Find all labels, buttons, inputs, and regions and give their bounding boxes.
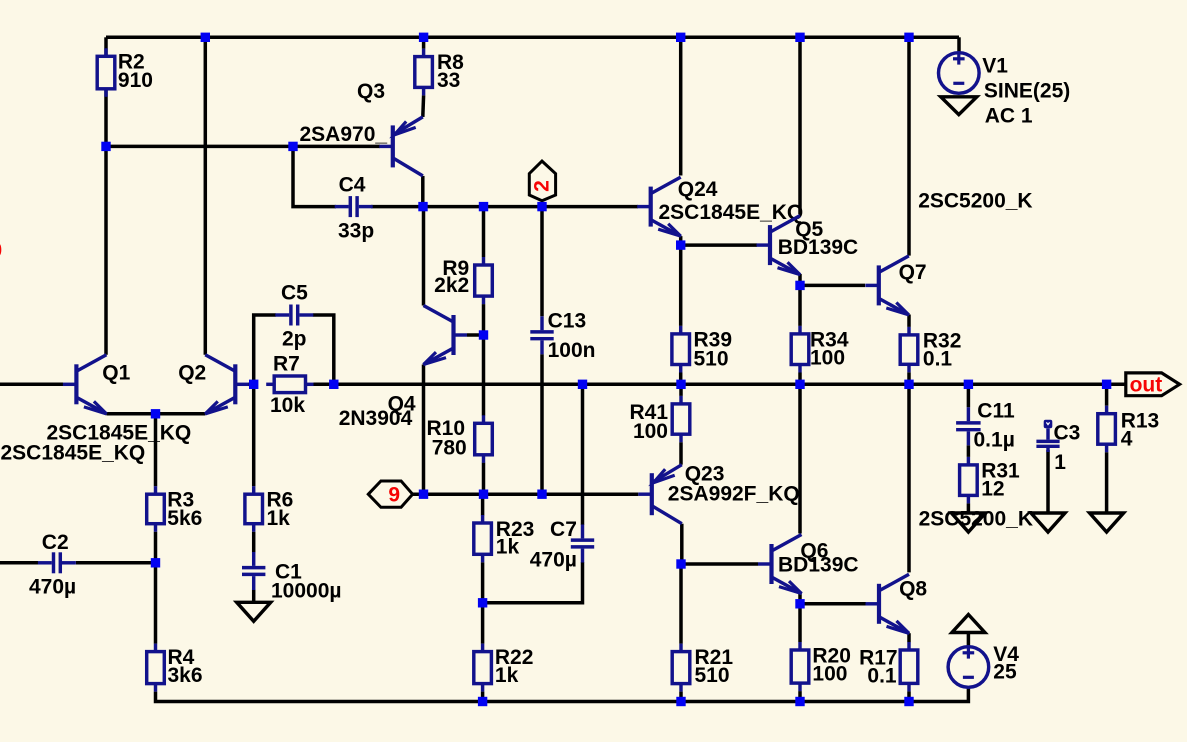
resistor R21 — [672, 644, 690, 692]
value Q4 2N3904 — [339, 407, 413, 430]
wire Q6 base — [681, 562, 758, 566]
svg-text:1k: 1k — [267, 507, 291, 530]
wire C5 right branch — [313, 315, 334, 384]
capacitor C13 — [530, 316, 553, 354]
wire R23 bottom — [481, 562, 485, 603]
wire Q4 emitter down — [422, 365, 426, 495]
transistor Q8 2SC5200_K — [866, 574, 910, 633]
svg-text:2p: 2p — [282, 328, 307, 351]
wire R6 to C1 — [252, 532, 256, 553]
value R32 — [923, 348, 953, 371]
svg-text:Q8: Q8 — [899, 577, 927, 600]
wire Q8 emitter to R17 — [907, 633, 911, 642]
wire C7 top — [581, 384, 585, 525]
value V1 SINE — [984, 79, 1070, 102]
label R22 — [495, 646, 534, 669]
value R3 — [167, 507, 202, 530]
svg-text:AC 1: AC 1 — [985, 105, 1033, 128]
wire bottom rail — [156, 687, 969, 701]
wire Q5 collector — [798, 37, 802, 214]
resistor R4 — [147, 644, 165, 692]
wire R22 bottom — [481, 692, 485, 702]
wire C4 right — [371, 205, 423, 209]
svg-text:0.1: 0.1 — [923, 348, 953, 371]
label R7 — [273, 353, 300, 376]
svg-text:910: 910 — [118, 69, 153, 92]
svg-text:510: 510 — [694, 347, 729, 370]
svg-text:2: 2 — [531, 180, 554, 192]
wire R9 bottom to Q4 base node — [482, 304, 486, 335]
value R41 — [633, 420, 668, 443]
voltage source V1 — [939, 53, 980, 94]
label R23 — [496, 518, 535, 541]
value C5 — [282, 328, 307, 351]
wire R6 top — [252, 384, 256, 486]
resistor R7 — [266, 376, 313, 393]
label R39 — [694, 328, 733, 351]
wire Q8 base — [800, 602, 866, 606]
svg-text:0.1µ: 0.1µ — [974, 429, 1015, 452]
junction at (542,494) — [537, 490, 546, 499]
svg-text:0: 0 — [0, 239, 2, 262]
value V1 AC — [985, 105, 1033, 128]
label Q3 — [357, 80, 385, 103]
value Q24 2SC1845E_KQ — [659, 201, 804, 224]
junction at (800,37) — [795, 33, 804, 42]
wire node to Q1 collector — [104, 146, 108, 354]
wire C7 bottom — [483, 562, 583, 603]
wire R13 top — [1105, 384, 1109, 405]
junction at (424,37) — [419, 33, 428, 42]
junction at (334,384) — [329, 380, 338, 389]
svg-text:2SC1845E_KQ: 2SC1845E_KQ — [659, 201, 804, 224]
junction at (968,384) — [964, 380, 973, 389]
junction at (254,384) — [249, 380, 258, 389]
wire Q4 base — [467, 333, 484, 337]
label Q23 — [685, 462, 725, 485]
value Q23 2SA992F_KQ — [668, 483, 800, 506]
wire C1 to ground — [252, 590, 256, 603]
svg-text:470µ: 470µ — [29, 576, 76, 599]
wire R21 bottom — [679, 692, 683, 702]
wire R34 bottom — [798, 373, 802, 385]
junction at (681,564) — [676, 559, 685, 568]
label R4 — [168, 646, 195, 669]
svg-text:100: 100 — [810, 347, 845, 370]
capacitor C3 (polarized) — [1036, 420, 1059, 452]
wire C2 right — [76, 561, 156, 565]
svg-text:Q3: Q3 — [357, 80, 385, 103]
capacitor C11 — [956, 407, 981, 445]
label C3 — [1054, 422, 1081, 445]
junction at (909,702) — [904, 697, 913, 706]
resistor R2 — [97, 48, 115, 97]
svg-text:C4: C4 — [339, 174, 366, 197]
wire Q5 emitter node — [798, 274, 802, 286]
value R34 — [810, 347, 845, 370]
svg-text:10k: 10k — [270, 394, 305, 417]
net flag 2 — [529, 161, 555, 201]
label R20 — [812, 644, 851, 667]
label V1 — [982, 55, 1008, 78]
junction at (484,494) — [479, 490, 488, 499]
transistor Q6 BD139C — [758, 535, 802, 594]
wire top rail — [106, 36, 959, 40]
svg-text:V1: V1 — [982, 55, 1008, 78]
label R8 — [437, 51, 464, 74]
wire R13 to ground — [1105, 452, 1109, 513]
ground C1 — [237, 602, 271, 621]
ground R13 — [1090, 513, 1124, 532]
svg-text:3k6: 3k6 — [168, 664, 203, 687]
label C5 — [281, 281, 308, 304]
label C7 — [550, 518, 577, 541]
wire V1 lead — [957, 37, 961, 53]
ground R31 — [951, 513, 985, 532]
svg-text:33p: 33p — [338, 220, 374, 243]
transistor Q7 2SC5200_K — [865, 256, 909, 315]
resistor R32 — [900, 327, 918, 372]
svg-text:33: 33 — [437, 69, 460, 92]
wire C3 to ground — [1046, 450, 1050, 513]
svg-text:C5: C5 — [281, 281, 308, 304]
svg-text:12: 12 — [981, 478, 1004, 501]
wire main rail — [314, 383, 1126, 387]
wire C2 left — [0, 561, 38, 565]
wire V4 top lead — [967, 633, 971, 648]
wire emitters to R3 — [154, 414, 158, 486]
svg-text:C2: C2 — [42, 531, 69, 554]
wire R39 bottom — [679, 373, 683, 385]
transistor Q2 2SC1845E_KQ — [205, 355, 249, 414]
wire R21 top — [679, 564, 683, 644]
junction at (681,384) — [676, 380, 685, 389]
wire R41 top — [679, 384, 683, 396]
wire Q1 Q2 emitters — [106, 412, 205, 416]
wire R41 to Q23 emitter — [679, 442, 683, 465]
value R23 — [496, 536, 520, 559]
wire C11 to R31 — [967, 445, 971, 457]
junction at (293,146) — [288, 142, 297, 151]
value C7 — [530, 549, 577, 572]
junction at (156,563) — [151, 558, 160, 567]
label Q7 — [899, 261, 927, 284]
svg-text:2SC5200_K: 2SC5200_K — [918, 189, 1032, 212]
label Q6 — [800, 540, 828, 563]
svg-text:1k: 1k — [495, 664, 519, 687]
junction at (423,207) — [418, 202, 427, 211]
label C11 — [977, 400, 1015, 423]
resistor R6 — [245, 486, 263, 532]
value R9 — [434, 274, 469, 297]
junction at (106,146) — [101, 142, 110, 151]
wire Q3 emitter to R8 — [421, 95, 425, 117]
svg-text:470µ: 470µ — [530, 549, 577, 572]
svg-text:out: out — [1130, 374, 1163, 397]
wire Q2 collector — [204, 37, 208, 355]
value C3 — [1054, 451, 1066, 474]
label R21 — [695, 646, 734, 669]
junction at (483,603) — [478, 598, 487, 607]
svg-text:C7: C7 — [550, 518, 577, 541]
value C13 — [548, 339, 596, 362]
wire R17 bottom — [907, 691, 911, 701]
svg-text:C11: C11 — [977, 400, 1015, 423]
label R13 — [1121, 410, 1160, 433]
label Q24 — [678, 178, 718, 201]
label R32 — [923, 329, 962, 352]
junction at (681,702) — [676, 697, 685, 706]
resistor R13 — [1098, 406, 1116, 453]
wire Q7 collector — [907, 37, 911, 255]
label V4 — [993, 643, 1019, 666]
svg-text:4: 4 — [1121, 428, 1133, 451]
svg-text:2SA992F_KQ: 2SA992F_KQ — [668, 483, 800, 506]
wire R31 to ground — [967, 503, 971, 513]
junction at (484,335) — [479, 330, 488, 339]
wire input — [0, 383, 63, 387]
resistor R31 — [960, 457, 978, 504]
junction at (800,285) — [795, 281, 804, 290]
svg-text:2SC5200_K: 2SC5200_K — [919, 508, 1033, 531]
wire C13 top — [540, 207, 544, 317]
svg-text:25: 25 — [993, 661, 1017, 684]
wire R34 top — [798, 285, 802, 326]
capacitor C2 — [38, 552, 76, 573]
value Q8 2SC5200_K — [919, 508, 1033, 531]
junction at (484,207) — [479, 202, 488, 211]
wire C11 top — [967, 384, 971, 407]
capacitor C1 — [242, 552, 265, 590]
wire R3 to C2 node — [154, 532, 158, 563]
label Q2 — [178, 361, 206, 384]
value C11 — [974, 429, 1015, 452]
junction at (582,384) — [578, 380, 587, 389]
capacitor C7 — [571, 525, 594, 563]
wire R2 top — [104, 37, 108, 56]
wire Q6 collector — [798, 384, 802, 533]
wire R10 top — [482, 335, 486, 416]
net label 9 — [388, 484, 400, 507]
value Q5 BD139C — [778, 236, 859, 259]
label R6 — [267, 489, 294, 512]
svg-text:100n: 100n — [548, 339, 596, 362]
value R39 — [694, 347, 729, 370]
value R22 — [495, 664, 519, 687]
value R13 — [1121, 428, 1133, 451]
junction at (800,702) — [795, 697, 804, 706]
junction at (542,207) — [537, 202, 546, 211]
net flag 9 — [368, 481, 412, 507]
wire Q24 base — [542, 205, 638, 209]
wire C5 left branch — [254, 315, 276, 384]
power arrow above V4 — [952, 615, 985, 633]
label R17 — [859, 647, 898, 670]
junction at (205,37) — [201, 33, 210, 42]
wire Q23 collector down — [680, 524, 684, 564]
value R21 — [695, 664, 730, 687]
net flag out — [1126, 373, 1180, 396]
resistor R41 — [672, 396, 690, 442]
value R10 — [432, 437, 467, 460]
resistor R23 — [474, 515, 492, 562]
net label 2 — [531, 180, 554, 192]
transistor Q24 2SC1845E_KQ — [637, 177, 681, 236]
svg-text:Q7: Q7 — [899, 261, 927, 284]
label R2 — [118, 51, 145, 74]
value R2 — [118, 69, 153, 92]
wire Q7 base — [800, 284, 865, 288]
wire R9 top — [482, 207, 486, 257]
value Q6 BD139C — [778, 554, 859, 577]
label C2 — [42, 531, 69, 554]
label R10 — [427, 417, 466, 440]
capacitor C5 — [275, 305, 313, 326]
svg-text:2SC1845E_KQ: 2SC1845E_KQ — [1, 442, 146, 465]
wire C13 bottom — [540, 354, 544, 494]
junction at (800,604) — [795, 599, 804, 608]
junction at (800,384) — [795, 380, 804, 389]
svg-text:100: 100 — [633, 420, 668, 443]
wire Q3 base — [106, 145, 380, 149]
value C1 — [271, 580, 342, 603]
wire Q7 emitter to R32 — [907, 315, 911, 327]
svg-text:5k6: 5k6 — [167, 507, 202, 530]
svg-text:Q24: Q24 — [678, 178, 718, 201]
svg-text:SINE(25): SINE(25) — [984, 79, 1070, 102]
svg-text:2k2: 2k2 — [434, 274, 469, 297]
wire R20 bottom — [798, 691, 802, 701]
resistor R34 — [791, 326, 809, 373]
junction at (483,702) — [478, 697, 487, 706]
svg-text:BD139C: BD139C — [778, 554, 859, 577]
transistor Q5 BD139C — [757, 216, 801, 275]
wire R20 top — [798, 604, 802, 642]
value Q7 2SC5200_K — [918, 189, 1032, 212]
value C4 — [338, 220, 374, 243]
wire net9 rail — [413, 492, 639, 496]
wire R8 top — [422, 37, 426, 48]
resistor R8 — [415, 49, 433, 96]
svg-text:R7: R7 — [273, 353, 300, 376]
label Q4 — [388, 392, 416, 415]
value C2 — [29, 576, 76, 599]
value Q2 2SC1845E_KQ — [47, 422, 192, 445]
label C4 — [339, 174, 366, 197]
label Q5 — [795, 218, 823, 241]
capacitor C4 — [335, 196, 373, 217]
svg-text:10000µ: 10000µ — [271, 580, 342, 603]
resistor R10 — [475, 415, 493, 463]
junction at (681,37) — [676, 33, 685, 42]
wire R22 top — [481, 603, 485, 644]
label R31 — [981, 459, 1020, 482]
resistor R17 — [900, 642, 918, 691]
transistor Q23 2SA992F_KQ — [638, 465, 682, 524]
svg-text:Q2: Q2 — [178, 361, 206, 384]
label R41 — [629, 401, 668, 424]
svg-text:780: 780 — [432, 437, 467, 460]
value R31 — [981, 478, 1004, 501]
value Q3 2SA970_ — [300, 123, 388, 146]
resistor R3 — [147, 486, 165, 532]
resistor R20 — [791, 642, 809, 691]
ground V1 — [941, 97, 977, 115]
wire rail down to Q8 collector — [907, 384, 911, 572]
label Q8 — [899, 577, 927, 600]
junction at (424,494) — [419, 490, 428, 499]
cut-off red net label at left edge — [0, 239, 2, 262]
value Q1 2SC1845E_KQ — [1, 442, 146, 465]
wire C4 left branch — [293, 146, 336, 206]
junction at (156,414) — [151, 409, 160, 418]
junction at (1107,384) — [1102, 380, 1111, 389]
wire node2 rail — [423, 205, 542, 209]
label R9 — [442, 257, 469, 280]
resistor R9 — [475, 257, 493, 304]
wire Q5 base — [681, 243, 757, 247]
wire R23 top — [481, 494, 485, 515]
wire R2 bottom to node — [104, 89, 108, 147]
svg-text:Q1: Q1 — [102, 361, 130, 384]
value V4 — [993, 661, 1017, 684]
wire node to R4 — [154, 563, 158, 644]
junction at (681,245) — [676, 240, 685, 249]
label R34 — [810, 328, 849, 351]
svg-text:100: 100 — [812, 663, 847, 686]
svg-text:BD139C: BD139C — [778, 236, 859, 259]
value R20 — [812, 663, 847, 686]
resistor R39 — [672, 326, 690, 373]
wire Q24 collector — [679, 37, 683, 175]
net label out — [1130, 374, 1163, 397]
transistor Q1 2SC1845E_KQ — [63, 355, 107, 414]
value R6 — [267, 507, 291, 530]
transistor Q3 2SA970 — [379, 117, 423, 176]
wire Q24 emitter node — [679, 236, 683, 326]
wire Q2 base — [248, 383, 254, 387]
wire Q4 collector — [422, 207, 426, 306]
svg-text:510: 510 — [695, 664, 730, 687]
svg-text:1: 1 — [1054, 451, 1066, 474]
voltage source V4 — [948, 647, 989, 688]
value R8 — [437, 69, 460, 92]
junction at (909,37) — [904, 33, 913, 42]
value R17 — [867, 665, 897, 688]
ground C3 — [1031, 513, 1065, 532]
label C1 — [275, 561, 302, 584]
svg-text:C13: C13 — [548, 309, 587, 332]
label C13 — [548, 309, 587, 332]
junction at (909,384) — [904, 380, 913, 389]
value R4 — [168, 664, 203, 687]
svg-text:C3: C3 — [1054, 422, 1081, 445]
svg-text:9: 9 — [388, 484, 400, 507]
svg-text:2N3904: 2N3904 — [339, 407, 413, 430]
wire Q3 collector — [421, 176, 425, 207]
svg-text:2SA970_: 2SA970_ — [300, 123, 388, 146]
transistor Q4 2N3904 — [424, 306, 468, 365]
label R3 — [167, 489, 194, 512]
resistor R22 — [474, 644, 492, 692]
wire R10 bottom — [482, 463, 486, 495]
wire R32 bottom — [907, 372, 911, 384]
value R7 — [270, 394, 305, 417]
wire Q6 emitter node — [798, 594, 802, 604]
svg-text:1k: 1k — [496, 536, 520, 559]
label Q1 — [102, 361, 130, 384]
svg-text:0.1: 0.1 — [867, 665, 897, 688]
